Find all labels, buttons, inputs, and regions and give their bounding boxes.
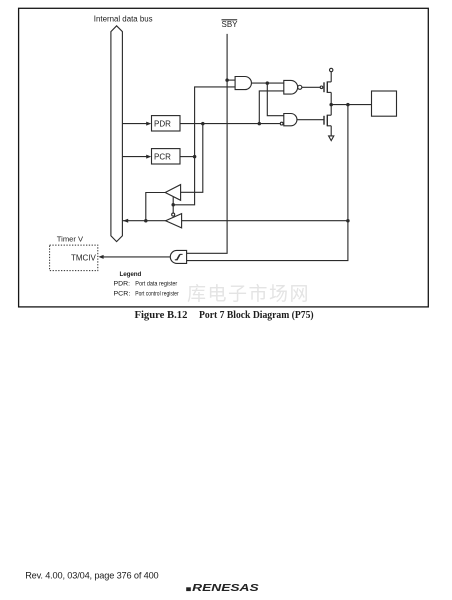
- wire bus to PDR with arrow: [122, 123, 147, 125]
- svg-text:Port 7 Block Diagram (P75): Port 7 Block Diagram (P75): [199, 310, 314, 321]
- internal data bus: [111, 26, 123, 242]
- wire pad feedback vertical down to Schmitt lower input: [187, 105, 348, 261]
- pad P75: [372, 91, 397, 116]
- TMCIV block: [50, 245, 98, 271]
- ground: [329, 136, 334, 141]
- node pad feedback to bus read line: [346, 219, 350, 223]
- wire node down to buffer1 input: [181, 124, 203, 193]
- svg-text:Legend: Legend: [120, 271, 142, 278]
- node PDR line to buffer: [201, 122, 205, 126]
- Timer V label: [57, 234, 84, 243]
- wire AND output down to NAND2 upper input: [267, 83, 284, 116]
- svg-text:SBY: SBY: [222, 20, 239, 29]
- buffer U5 reads pin: [166, 214, 182, 228]
- schmitt trigger U6: [170, 250, 186, 263]
- svg-text:PCR: PCR: [154, 153, 171, 162]
- node PCR branch: [193, 155, 197, 159]
- svg-text:Port data register: Port data register: [135, 281, 177, 288]
- wire PMOS drain to NMOS drain: [330, 92, 332, 115]
- svg-text:PCR:: PCR:: [114, 290, 131, 297]
- wire PCR up to AND gate lower input: [195, 87, 236, 157]
- wire NAND1 output to PMOS gate: [302, 86, 320, 88]
- svg-text:PDR:: PDR:: [114, 281, 131, 288]
- buffer U4 reads PDR: [165, 185, 180, 201]
- wire PDR output to NAND2 lower input bubble: [180, 123, 280, 125]
- nand gate U2: [284, 80, 298, 94]
- node drain junction: [329, 103, 333, 107]
- wire SBY node to AND gate upper input: [227, 79, 235, 81]
- transistor Q2 NMOS: [324, 115, 327, 127]
- schmitt hysteresis symbol: [175, 254, 183, 259]
- wire bus to PCR with arrow: [122, 156, 147, 158]
- node AND output branch: [266, 81, 270, 85]
- wire buffer1 output to bus read line: [146, 193, 166, 221]
- wire enable up to buffer1: [172, 196, 174, 204]
- power supply bubble: [330, 68, 333, 71]
- wire NMOS source to ground: [330, 126, 332, 136]
- svg-text:RENESAS: RENESAS: [192, 583, 259, 594]
- wire node up to NAND1 lower input: [259, 91, 284, 124]
- wire PCR output: [180, 156, 195, 158]
- Renesas logo: [186, 583, 259, 594]
- svg-text:Rev. 4.00, 03/04, page 376 of: Rev. 4.00, 03/04, page 376 of 400: [25, 570, 158, 580]
- and gate U1: [235, 77, 251, 90]
- svg-text:Figure B.12: Figure B.12: [135, 310, 188, 321]
- inverter bubble on buffer2 enable: [172, 213, 175, 216]
- register PDR: [152, 116, 181, 131]
- register PCR: [152, 149, 181, 164]
- SBY overline: [222, 19, 238, 21]
- node PDR line to NAND1: [258, 122, 262, 126]
- svg-text:Port control register: Port control register: [135, 290, 179, 297]
- transistor Q1 PMOS: [324, 81, 327, 93]
- wire enable down to buffer2 bubble: [172, 205, 174, 213]
- wire AND output to NAND1 upper input: [252, 82, 284, 84]
- wire pad read line to bus: [122, 220, 348, 222]
- svg-text:Internal data bus: Internal data bus: [94, 14, 153, 23]
- arrow into bus: [123, 219, 128, 223]
- node buffer enable: [171, 203, 175, 207]
- svg-text:PDR: PDR: [154, 120, 171, 129]
- wire SBY vertical to Schmitt input: [187, 34, 228, 253]
- transistor Q1 PMOS gate bubble: [320, 86, 323, 89]
- U3 input bubble: [280, 122, 283, 125]
- svg-text:TMCIV: TMCIV: [71, 254, 97, 263]
- wire schmitt output to TMCIV with arrow: [103, 256, 171, 258]
- nand gate U3: [284, 114, 297, 126]
- wire NAND2 output to NMOS gate: [297, 119, 324, 121]
- svg-text:Timer V: Timer V: [57, 234, 84, 243]
- svg-text:库电子市场网: 库电子市场网: [187, 283, 310, 305]
- node pad feedback: [346, 103, 350, 107]
- U2 output bubble: [298, 85, 302, 89]
- SBY net label: [222, 20, 239, 29]
- node SBY to AND input: [225, 78, 229, 82]
- wire PCR down to buffer enables: [173, 157, 194, 205]
- wire drain to pad: [331, 104, 371, 106]
- node buffer1 output on read line: [144, 219, 148, 223]
